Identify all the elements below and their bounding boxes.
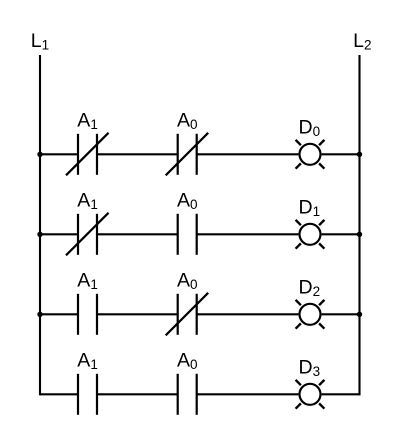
contact A0 rung 2 (NO) — [178, 214, 197, 255]
rung 3 wire: L1 rail to contact A1 — [40, 313, 78, 315]
contact A1 rung 4 (NO) — [78, 374, 97, 415]
junction node: rung 2 on L2 rail — [357, 232, 362, 237]
contact A0 rung 4 (NO) — [178, 374, 197, 415]
rung 2 wire: L1 rail to contact A1 — [40, 233, 78, 235]
rung 1 wire: A0 to lamp D0 — [197, 153, 299, 155]
svg-text:L2: L2 — [353, 30, 371, 52]
contact A1 rung 1 (NC) — [66, 133, 109, 176]
output lamp D2 rung 3 — [296, 300, 325, 329]
svg-text:A0: A0 — [177, 190, 198, 212]
junction node: rung 3 on L2 rail — [357, 312, 362, 317]
svg-text:A1: A1 — [77, 350, 98, 372]
svg-text:D0: D0 — [299, 116, 321, 138]
output lamp D1 rung 2 — [296, 220, 325, 249]
junction node: rung 2 on L1 rail — [37, 232, 42, 237]
svg-text:D1: D1 — [299, 196, 321, 218]
rung 4 wire: lamp D3 to L2 rail — [322, 393, 360, 395]
junction node: rung 3 on L1 rail — [37, 312, 42, 317]
svg-text:A1: A1 — [77, 110, 98, 132]
junction node: rung 1 on L1 rail — [37, 152, 42, 157]
rung 2 wire: lamp D1 to L2 rail — [322, 233, 360, 235]
rung 4 wire: A0 to lamp D3 — [197, 393, 299, 395]
contact A1 rung 3 (NO) — [78, 294, 97, 335]
svg-text:L1: L1 — [31, 30, 49, 52]
rung 2 wire: A0 to lamp D1 — [197, 233, 299, 235]
svg-text:A1: A1 — [77, 190, 98, 212]
rung 4 wire: L1 rail to contact A1 — [40, 393, 78, 395]
rung 3 wire: A1 to A0 — [97, 313, 178, 315]
svg-text:A0: A0 — [177, 270, 198, 292]
left power rail L1 — [39, 55, 41, 395]
right power rail L2 — [358, 55, 360, 395]
rung 1 wire: A1 to A0 — [97, 153, 178, 155]
rung 4 wire: A1 to A0 — [97, 393, 178, 395]
svg-text:D3: D3 — [299, 356, 321, 378]
junction node: rung 1 on L2 rail — [357, 152, 362, 157]
svg-text:A0: A0 — [177, 110, 198, 132]
contact A0 rung 3 (NC) — [166, 293, 209, 336]
rung 1 wire: lamp D0 to L2 rail — [322, 153, 360, 155]
rung 2 wire: A1 to A0 — [97, 233, 178, 235]
svg-text:A0: A0 — [177, 350, 198, 372]
svg-text:A1: A1 — [77, 270, 98, 292]
rung 1 wire: L1 rail to contact A1 — [40, 153, 78, 155]
output lamp D3 rung 4 — [296, 380, 325, 409]
rung 3 wire: A0 to lamp D2 — [197, 313, 299, 315]
output lamp D0 rung 1 — [296, 140, 325, 169]
svg-text:D2: D2 — [299, 276, 321, 298]
contact A0 rung 1 (NC) — [166, 133, 209, 176]
rung 3 wire: lamp D2 to L2 rail — [322, 313, 360, 315]
contact A1 rung 2 (NC) — [66, 213, 109, 256]
